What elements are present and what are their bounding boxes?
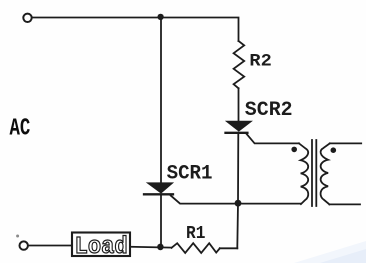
terminal T2 (AC bottom input) [20, 241, 28, 249]
transformer primary winding [299, 143, 308, 204]
stray speck [16, 235, 19, 238]
wire SCR2 cathode down to bottom rail [237, 133, 238, 249]
wire top rail [32, 18, 238, 42]
svg-text:Load: Load [75, 234, 128, 261]
svg-text:R1: R1 [186, 224, 206, 244]
SCR2 gate wire [247, 134, 299, 143]
transformer core [311, 140, 313, 206]
SCR1 anode triangle [148, 183, 173, 193]
wire load to R1 [130, 246, 172, 249]
terminal T1 (AC top input) [23, 14, 31, 22]
wire secondary top lead [330, 142, 361, 144]
polarity dot primary [291, 147, 297, 153]
svg-text:SCR1: SCR1 [167, 162, 213, 185]
resistor R1 [172, 243, 220, 253]
wire R1 to SCR2 branch [220, 247, 238, 249]
watermark wedge bottom-right [294, 241, 366, 263]
svg-text:SCR2: SCR2 [245, 99, 293, 122]
svg-text:AC: AC [10, 116, 31, 143]
wire R2 to SCR2 [238, 88, 240, 122]
junction dot (gate rail / SCR2 cathode) [235, 200, 242, 207]
transformer secondary winding [321, 143, 330, 204]
wire T2 to load [28, 245, 72, 247]
junction dot (bottom rail / SCR1 cathode) [157, 244, 164, 251]
wire SCR1 anode branch [160, 18, 162, 184]
SCR1 gate wire [171, 196, 301, 204]
svg-text:R2: R2 [249, 52, 271, 72]
polarity dot secondary [331, 147, 337, 153]
junction dot (top rail / SCR1 branch) [157, 14, 163, 20]
wire secondary bottom lead [329, 203, 360, 205]
wire SCR1 cathode down to bottom rail [160, 194, 162, 247]
resistor R2 [234, 41, 245, 88]
SCR2 cathode bar [226, 132, 248, 134]
load box [72, 233, 130, 257]
SCR2 anode triangle [227, 121, 252, 130]
SCR1 cathode bar [144, 193, 173, 195]
